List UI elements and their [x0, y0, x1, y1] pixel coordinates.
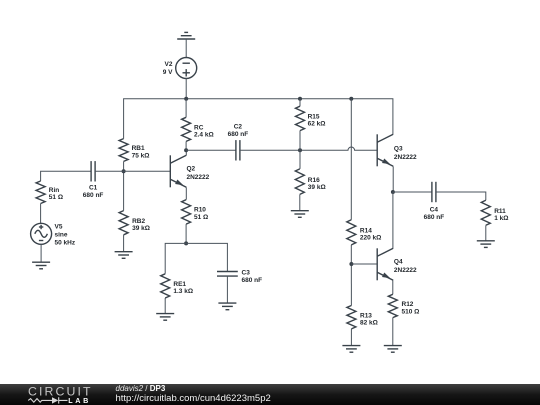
svg-text:R13: R13	[360, 312, 372, 319]
svg-text:2N2222: 2N2222	[394, 267, 417, 274]
resistor RE1	[161, 274, 170, 298]
svg-text:V5: V5	[55, 223, 63, 230]
svg-text:9 V: 9 V	[163, 69, 173, 76]
resistor R12	[388, 294, 397, 317]
svg-text:sine: sine	[55, 231, 68, 238]
node Q4 base junction	[349, 262, 353, 266]
wire R14 to R13	[350, 245, 352, 306]
resistor Rin	[36, 181, 45, 204]
wire C1 to Q2 base	[95, 170, 170, 172]
svg-text:39 kΩ: 39 kΩ	[132, 225, 150, 232]
capacitor C3	[217, 272, 238, 277]
node Q3 emitter / Q4 collector / C4	[391, 190, 395, 194]
svg-text:R12: R12	[402, 301, 414, 308]
ground (below R16)	[291, 211, 309, 218]
wire RC bottom to collector node	[185, 141, 187, 150]
wire Q3 emitter to output node	[392, 166, 394, 192]
wire R13 to ground	[350, 329, 352, 346]
svg-text:R16: R16	[308, 177, 320, 184]
wire R15 bottom to node	[299, 131, 301, 169]
footer text	[116, 385, 166, 393]
svg-text:Q3: Q3	[394, 145, 403, 152]
wire RE1 to ground	[164, 298, 166, 314]
node rail/V2/RC	[184, 97, 188, 101]
resistor R16	[295, 169, 304, 195]
resistor R13	[347, 306, 356, 329]
wire rail to R15	[299, 99, 301, 106]
svg-text:680 nF: 680 nF	[424, 214, 445, 221]
wire R11 to ground	[485, 225, 487, 241]
svg-text:RC: RC	[194, 125, 204, 132]
svg-text:2.4 kΩ: 2.4 kΩ	[194, 132, 214, 139]
wire C2 to R15/R16 node and Q3 base with hop	[240, 147, 377, 150]
svg-text:1.3 kΩ: 1.3 kΩ	[173, 288, 193, 295]
capacitor C4	[432, 182, 436, 202]
wire R10 to emitter net	[185, 224, 187, 243]
svg-text:2N2222: 2N2222	[187, 174, 210, 181]
ground (below V5)	[32, 262, 50, 269]
svg-text:Rin: Rin	[49, 187, 60, 194]
resistor R10	[182, 200, 191, 224]
svg-text:LAB: LAB	[68, 396, 91, 405]
wire RB1 bottom to input node	[123, 161, 125, 210]
svg-text:C3: C3	[242, 269, 251, 276]
transistor Q2 2N2222	[170, 155, 186, 187]
wire C4 to R11	[436, 192, 486, 200]
svg-text:75 kΩ: 75 kΩ	[132, 152, 150, 159]
svg-text:R11: R11	[494, 208, 506, 215]
svg-text:R10: R10	[194, 207, 206, 214]
wire collector node to C2	[186, 149, 236, 151]
wire top supply rail	[124, 99, 393, 139]
resistor RB1	[119, 139, 128, 162]
wire ground to V2 top	[185, 39, 187, 58]
node rail/R14	[349, 97, 353, 101]
resistor RB2	[119, 211, 128, 235]
svg-text:Q4: Q4	[394, 258, 403, 265]
wire Rin to V5	[40, 204, 42, 224]
wire Q2 emitter down to R10	[185, 187, 187, 199]
svg-text:R14: R14	[360, 228, 372, 235]
svg-text:C1: C1	[89, 185, 98, 192]
wire input line Rin to Q2 base	[41, 171, 92, 181]
wire output node down to Q4 collector	[392, 192, 394, 248]
svg-text:R15: R15	[308, 114, 320, 121]
svg-text:Q2: Q2	[187, 166, 196, 173]
svg-text:RB1: RB1	[132, 145, 145, 152]
ground (below RE1)	[156, 314, 174, 321]
wire R12 to ground	[392, 318, 394, 346]
voltage source V5 (sine)	[31, 223, 52, 244]
svg-text:680 nF: 680 nF	[83, 192, 104, 199]
svg-text:V2: V2	[165, 61, 173, 68]
capacitor C2	[236, 140, 240, 160]
wire C3 to ground	[226, 276, 228, 303]
svg-text:680 nF: 680 nF	[228, 131, 249, 138]
capacitor C1	[91, 161, 95, 181]
ground (top, above V2)	[177, 32, 195, 39]
svg-text:39 kΩ: 39 kΩ	[308, 184, 326, 191]
transistor Q3 2N2222	[377, 134, 393, 166]
ground (below R13)	[342, 346, 360, 353]
wire emitter net horizontal	[165, 243, 227, 273]
footer bar	[0, 384, 540, 405]
ground (below C3)	[218, 303, 236, 310]
resistor R11	[481, 200, 490, 225]
wire Q2 collector	[185, 150, 187, 155]
svg-text:62 kΩ: 62 kΩ	[308, 121, 326, 128]
transistor Q4 2N2222	[377, 248, 393, 280]
svg-text:1 kΩ: 1 kΩ	[494, 215, 508, 222]
ground (below RB2)	[115, 252, 133, 259]
svg-text:2N2222: 2N2222	[394, 154, 417, 161]
svg-text:RB2: RB2	[132, 218, 145, 225]
resistor R15	[296, 106, 305, 130]
wire base node to Q4	[351, 263, 377, 265]
CircuitLab logo	[0, 384, 110, 405]
resistor RC	[182, 117, 191, 141]
wire rail down through R14/R13 column	[350, 99, 352, 220]
wire RB2 to ground	[123, 235, 125, 252]
wire Q4 emitter to R12	[392, 280, 394, 294]
voltage source V2	[176, 58, 197, 79]
svg-text:50 kHz: 50 kHz	[55, 239, 76, 246]
svg-text:51 Ω: 51 Ω	[49, 194, 63, 201]
svg-text:680 nF: 680 nF	[242, 277, 263, 284]
wire R16 to ground	[299, 194, 301, 210]
ground (below R12)	[384, 346, 402, 353]
svg-text:82 kΩ: 82 kΩ	[360, 320, 378, 327]
svg-text:220 kΩ: 220 kΩ	[360, 235, 381, 242]
wire V5 to ground	[40, 244, 42, 262]
svg-text:510 Ω: 510 Ω	[402, 308, 420, 315]
node Q2 collector / RC / C2	[184, 148, 188, 152]
ground (below R11)	[477, 241, 495, 248]
wire V2 bottom to rail	[185, 79, 187, 99]
wire node to C4	[393, 191, 432, 193]
node R10/RE1/C3	[184, 241, 188, 245]
node input/RB1/RB2	[122, 169, 126, 173]
node R15/R16/wire	[298, 148, 302, 152]
svg-text:C2: C2	[234, 123, 243, 130]
svg-text:RE1: RE1	[173, 281, 186, 288]
resistor R14	[347, 220, 356, 245]
node rail/R15	[298, 97, 302, 101]
wire rail to RC top	[185, 99, 187, 118]
svg-text:C4: C4	[430, 207, 439, 214]
svg-text:51 Ω: 51 Ω	[194, 214, 208, 221]
